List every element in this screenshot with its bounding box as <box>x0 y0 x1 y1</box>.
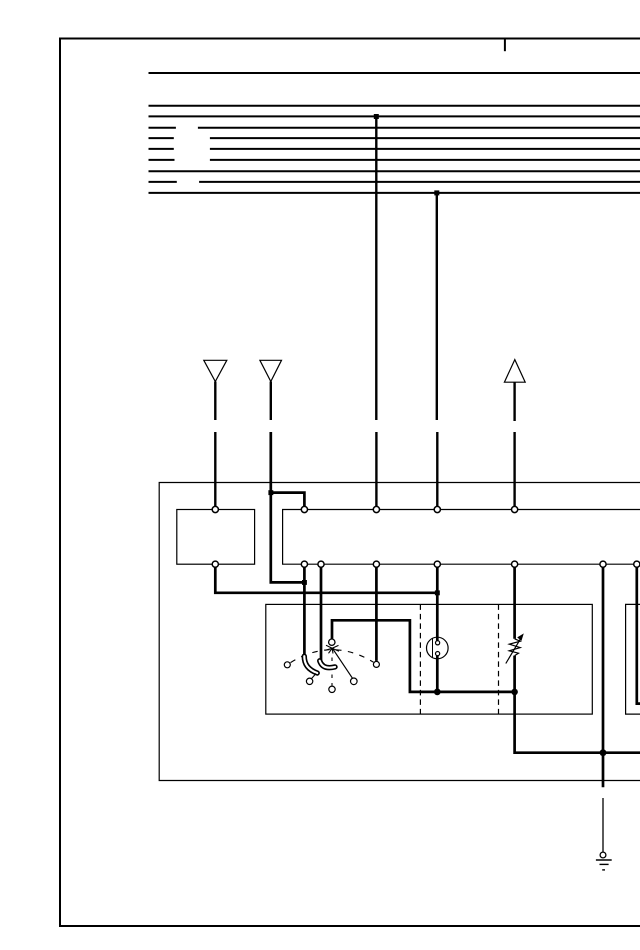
pin B1 <box>212 561 218 567</box>
rheostat arrow shaft <box>506 639 521 664</box>
bus wire 8 <box>149 170 640 172</box>
bus wire 1 <box>149 72 640 74</box>
pin A2 <box>301 506 307 512</box>
rheostat arrowhead <box>517 633 524 641</box>
switch pivot <box>329 639 335 645</box>
wire in right box <box>637 567 640 703</box>
wire from arrow B main run <box>271 432 305 582</box>
switch stud far left <box>284 662 290 668</box>
bus wire 10 <box>149 192 640 194</box>
wire below rheostat to bottom rail <box>515 656 640 753</box>
wire from arrow A upper segment <box>214 382 216 421</box>
switch wiper arm <box>333 649 353 679</box>
pin A1 <box>212 506 218 512</box>
wire from bus 10 upper segment <box>436 193 438 420</box>
ground symbol <box>596 860 612 870</box>
switch position star <box>325 645 339 653</box>
switch box partition (dashed) <box>419 604 421 714</box>
pin A3 <box>373 506 379 512</box>
node lamp bottom <box>434 689 441 696</box>
wire to lamp top <box>436 567 439 640</box>
lamp contact lower <box>436 652 440 656</box>
lamp body <box>427 637 449 659</box>
wire below lamp <box>436 656 439 692</box>
node on bus 3 <box>374 114 379 119</box>
ground feed wire <box>602 567 605 787</box>
pin B3 <box>318 561 324 567</box>
node at branch <box>268 490 273 495</box>
switch box partition 2 (dashed) <box>498 604 500 714</box>
switch stud lower right <box>351 678 358 685</box>
switch stud far right <box>373 661 379 667</box>
wire from switch pivot to lamp rail <box>332 620 515 692</box>
ground pin <box>600 852 606 858</box>
ground lead (thin) <box>602 798 604 852</box>
switch dashed travel arc <box>291 650 374 663</box>
lamp chord <box>432 638 434 657</box>
switch contact arc 1 outline <box>304 656 317 673</box>
bus wire 4 <box>149 127 640 129</box>
wire to switch contact arc 2 <box>320 567 323 660</box>
wire from bus 10 lower segment <box>436 432 438 506</box>
wire from arrow B upper segment <box>270 382 272 421</box>
wire from arrow C lower segment <box>513 432 515 506</box>
connector arrow A (down triangle) <box>204 360 227 381</box>
component box (outer) <box>159 483 640 781</box>
wire to switch contact right <box>375 567 378 661</box>
pin B2 <box>301 561 307 567</box>
node below connector <box>302 580 307 585</box>
wire to rheostat <box>513 567 516 638</box>
wire from bus 3 upper segment <box>375 116 377 420</box>
pin A4 <box>434 506 440 512</box>
link arc1 to stud <box>312 674 317 679</box>
pin B5 <box>434 561 440 567</box>
bus wire 3 <box>149 115 640 117</box>
node rheostat bottom <box>511 689 518 696</box>
connector arrow C (up triangle) <box>504 360 525 383</box>
wire from arrow C upper segment <box>513 382 515 421</box>
bus wire 7 <box>149 159 640 161</box>
bus wire 2 <box>149 105 640 107</box>
wire from arrow A lower segment <box>214 432 216 506</box>
node on bottom rail <box>600 749 607 756</box>
switch stud lower left <box>306 678 312 684</box>
node on bus 10 <box>434 190 439 195</box>
right box <box>626 604 640 714</box>
connector box (small left) <box>177 510 255 565</box>
bus wire 6 <box>149 148 640 150</box>
wire branch to pin <box>270 493 305 507</box>
frame tick mark <box>504 39 506 52</box>
switch dashed position line <box>331 658 333 686</box>
connector arrow B (down triangle) <box>260 360 282 381</box>
pin B6 <box>511 561 517 567</box>
pin B4 <box>373 561 379 567</box>
pin B8 <box>634 561 640 567</box>
bus wire 5 <box>149 137 640 139</box>
bus wire 9 <box>149 181 640 183</box>
rheostat R (zigzag) <box>509 639 520 656</box>
node on lamp wire <box>435 590 440 595</box>
connector box (wide) <box>283 510 640 565</box>
wire from bus 3 lower segment <box>375 432 377 506</box>
pin A5 <box>511 506 517 512</box>
wire to switch contact arc 1 <box>303 567 306 654</box>
switch contact arc 2 outline <box>320 661 335 668</box>
switch box <box>266 604 593 714</box>
lamp contact upper <box>436 641 440 645</box>
wire below small connector <box>215 567 437 592</box>
switch stud bottom <box>329 686 335 692</box>
pin B7 <box>600 561 606 567</box>
